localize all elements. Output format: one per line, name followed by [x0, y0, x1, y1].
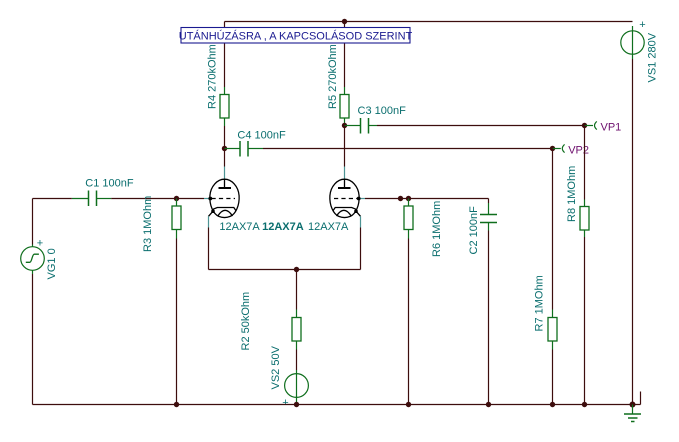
- triode U1 (left 12AX7A): [204, 167, 239, 228]
- wire VG1 down to bottom rail: [32, 274, 34, 405]
- wire C1 right to R3 and tube grid: [111, 198, 204, 200]
- svg-text:C3 100nF: C3 100nF: [358, 105, 407, 117]
- wire left edge from C1 corner down to VG1: [32, 199, 34, 245]
- wire top rail: [225, 21, 633, 23]
- wire bottom rail: [33, 404, 641, 406]
- svg-text:C2 100nF: C2 100nF: [468, 206, 480, 255]
- svg-text:R2 50kOhm: R2 50kOhm: [240, 292, 252, 351]
- wire C2 to bottom rail: [488, 199, 490, 405]
- wire R7 to bottom rail: [552, 350, 554, 405]
- svg-text:12AX7A: 12AX7A: [308, 221, 349, 233]
- node grid-right B (R6 top): [406, 196, 411, 201]
- node top junction above R5: [342, 19, 347, 24]
- resistor R2: [292, 310, 301, 350]
- node rail R7: [550, 402, 555, 407]
- svg-text:+: +: [37, 237, 43, 249]
- wire R8 to bottom rail: [584, 237, 586, 405]
- svg-text:R3 1MOhm: R3 1MOhm: [142, 196, 154, 252]
- node rail R8: [582, 402, 587, 407]
- node rail R3: [174, 402, 179, 407]
- wire VS1 to ground: [632, 59, 634, 405]
- wire right grid to R6 and C2: [365, 198, 489, 200]
- wire VP1 node down to R8: [584, 126, 586, 200]
- wire VP2 node down to R7: [552, 149, 554, 310]
- wire C4 to VP2 node: [263, 148, 553, 150]
- voltage source VS1: [621, 26, 644, 59]
- svg-text:VP1: VP1: [601, 122, 622, 134]
- wire cathode rail: [209, 269, 361, 271]
- svg-text:UTÁNHÚZÁSRA , A KAPCSOLÁSOD SZ: UTÁNHÚZÁSRA , A KAPCSOLÁSOD SZERINT: [179, 30, 413, 43]
- resistor R3: [172, 199, 181, 239]
- resistor R7: [548, 310, 557, 350]
- capacitor C4: [225, 141, 264, 157]
- wire stub right of ground: [640, 392, 642, 405]
- voltage pin VP1: [585, 121, 597, 129]
- node rail R6: [406, 402, 411, 407]
- svg-text:R5 270kOhm: R5 270kOhm: [327, 44, 339, 109]
- svg-text:+: +: [282, 397, 288, 409]
- node VP1 junction: [582, 123, 587, 128]
- resistor R8: [580, 200, 589, 238]
- node ground junction: [630, 402, 636, 408]
- node grid-right A: [398, 196, 403, 201]
- title box annotation: [181, 28, 410, 44]
- node VP2 junction: [550, 146, 555, 151]
- wire R2 to VS2: [296, 350, 298, 371]
- resistor R5: [340, 87, 349, 126]
- voltage pin VP2: [553, 144, 565, 152]
- svg-text:VG1 0: VG1 0: [46, 248, 58, 279]
- node rail C2: [486, 402, 491, 407]
- svg-text:+: +: [639, 19, 645, 31]
- svg-text:C4 100nF: C4 100nF: [237, 130, 286, 142]
- wire cathode rail down to R2: [296, 270, 298, 310]
- svg-text:VP2: VP2: [568, 145, 589, 157]
- generator VG1: [21, 245, 45, 275]
- wire R4 to left tube plate: [224, 126, 226, 167]
- node R3 top: [174, 196, 179, 201]
- wire R4 top drop: [224, 22, 226, 88]
- node C3 junction: [342, 123, 347, 128]
- svg-text:VS1 280V: VS1 280V: [647, 32, 659, 82]
- svg-text:C1 100nF: C1 100nF: [85, 178, 134, 190]
- svg-text:R4 270kOhm: R4 270kOhm: [206, 44, 218, 109]
- node cathode rail center: [294, 267, 299, 272]
- capacitor C1: [72, 191, 111, 207]
- svg-text:12AX7A: 12AX7A: [219, 221, 260, 233]
- capacitor C3: [345, 118, 378, 134]
- wire R5 to right tube plate: [344, 126, 346, 167]
- wire R6 to bottom rail: [408, 239, 410, 405]
- wire right cathode down: [360, 228, 362, 270]
- svg-text:VS2 50V: VS2 50V: [270, 345, 282, 389]
- wire R5 top drop: [344, 22, 346, 88]
- wire R3 to bottom rail: [176, 239, 178, 405]
- svg-text:R6 1MOhm: R6 1MOhm: [431, 201, 443, 257]
- ground: [624, 405, 641, 422]
- node C4 junction: [222, 146, 227, 151]
- node rail VS2: [294, 402, 299, 407]
- svg-text:12AX7A: 12AX7A: [262, 221, 304, 233]
- triode U2 (right 12AX7A): [330, 167, 365, 228]
- capacitor C2: [480, 203, 497, 231]
- svg-text:R8 1MOhm: R8 1MOhm: [566, 166, 578, 222]
- wire C1 left to corner: [33, 198, 72, 200]
- wire left cathode down: [208, 228, 210, 270]
- resistor R4: [220, 87, 229, 126]
- resistor R6: [404, 199, 413, 239]
- svg-text:R7 1MOhm: R7 1MOhm: [534, 275, 546, 331]
- voltage source VS2: [285, 370, 309, 405]
- wire C3 to VP1 node: [377, 125, 585, 127]
